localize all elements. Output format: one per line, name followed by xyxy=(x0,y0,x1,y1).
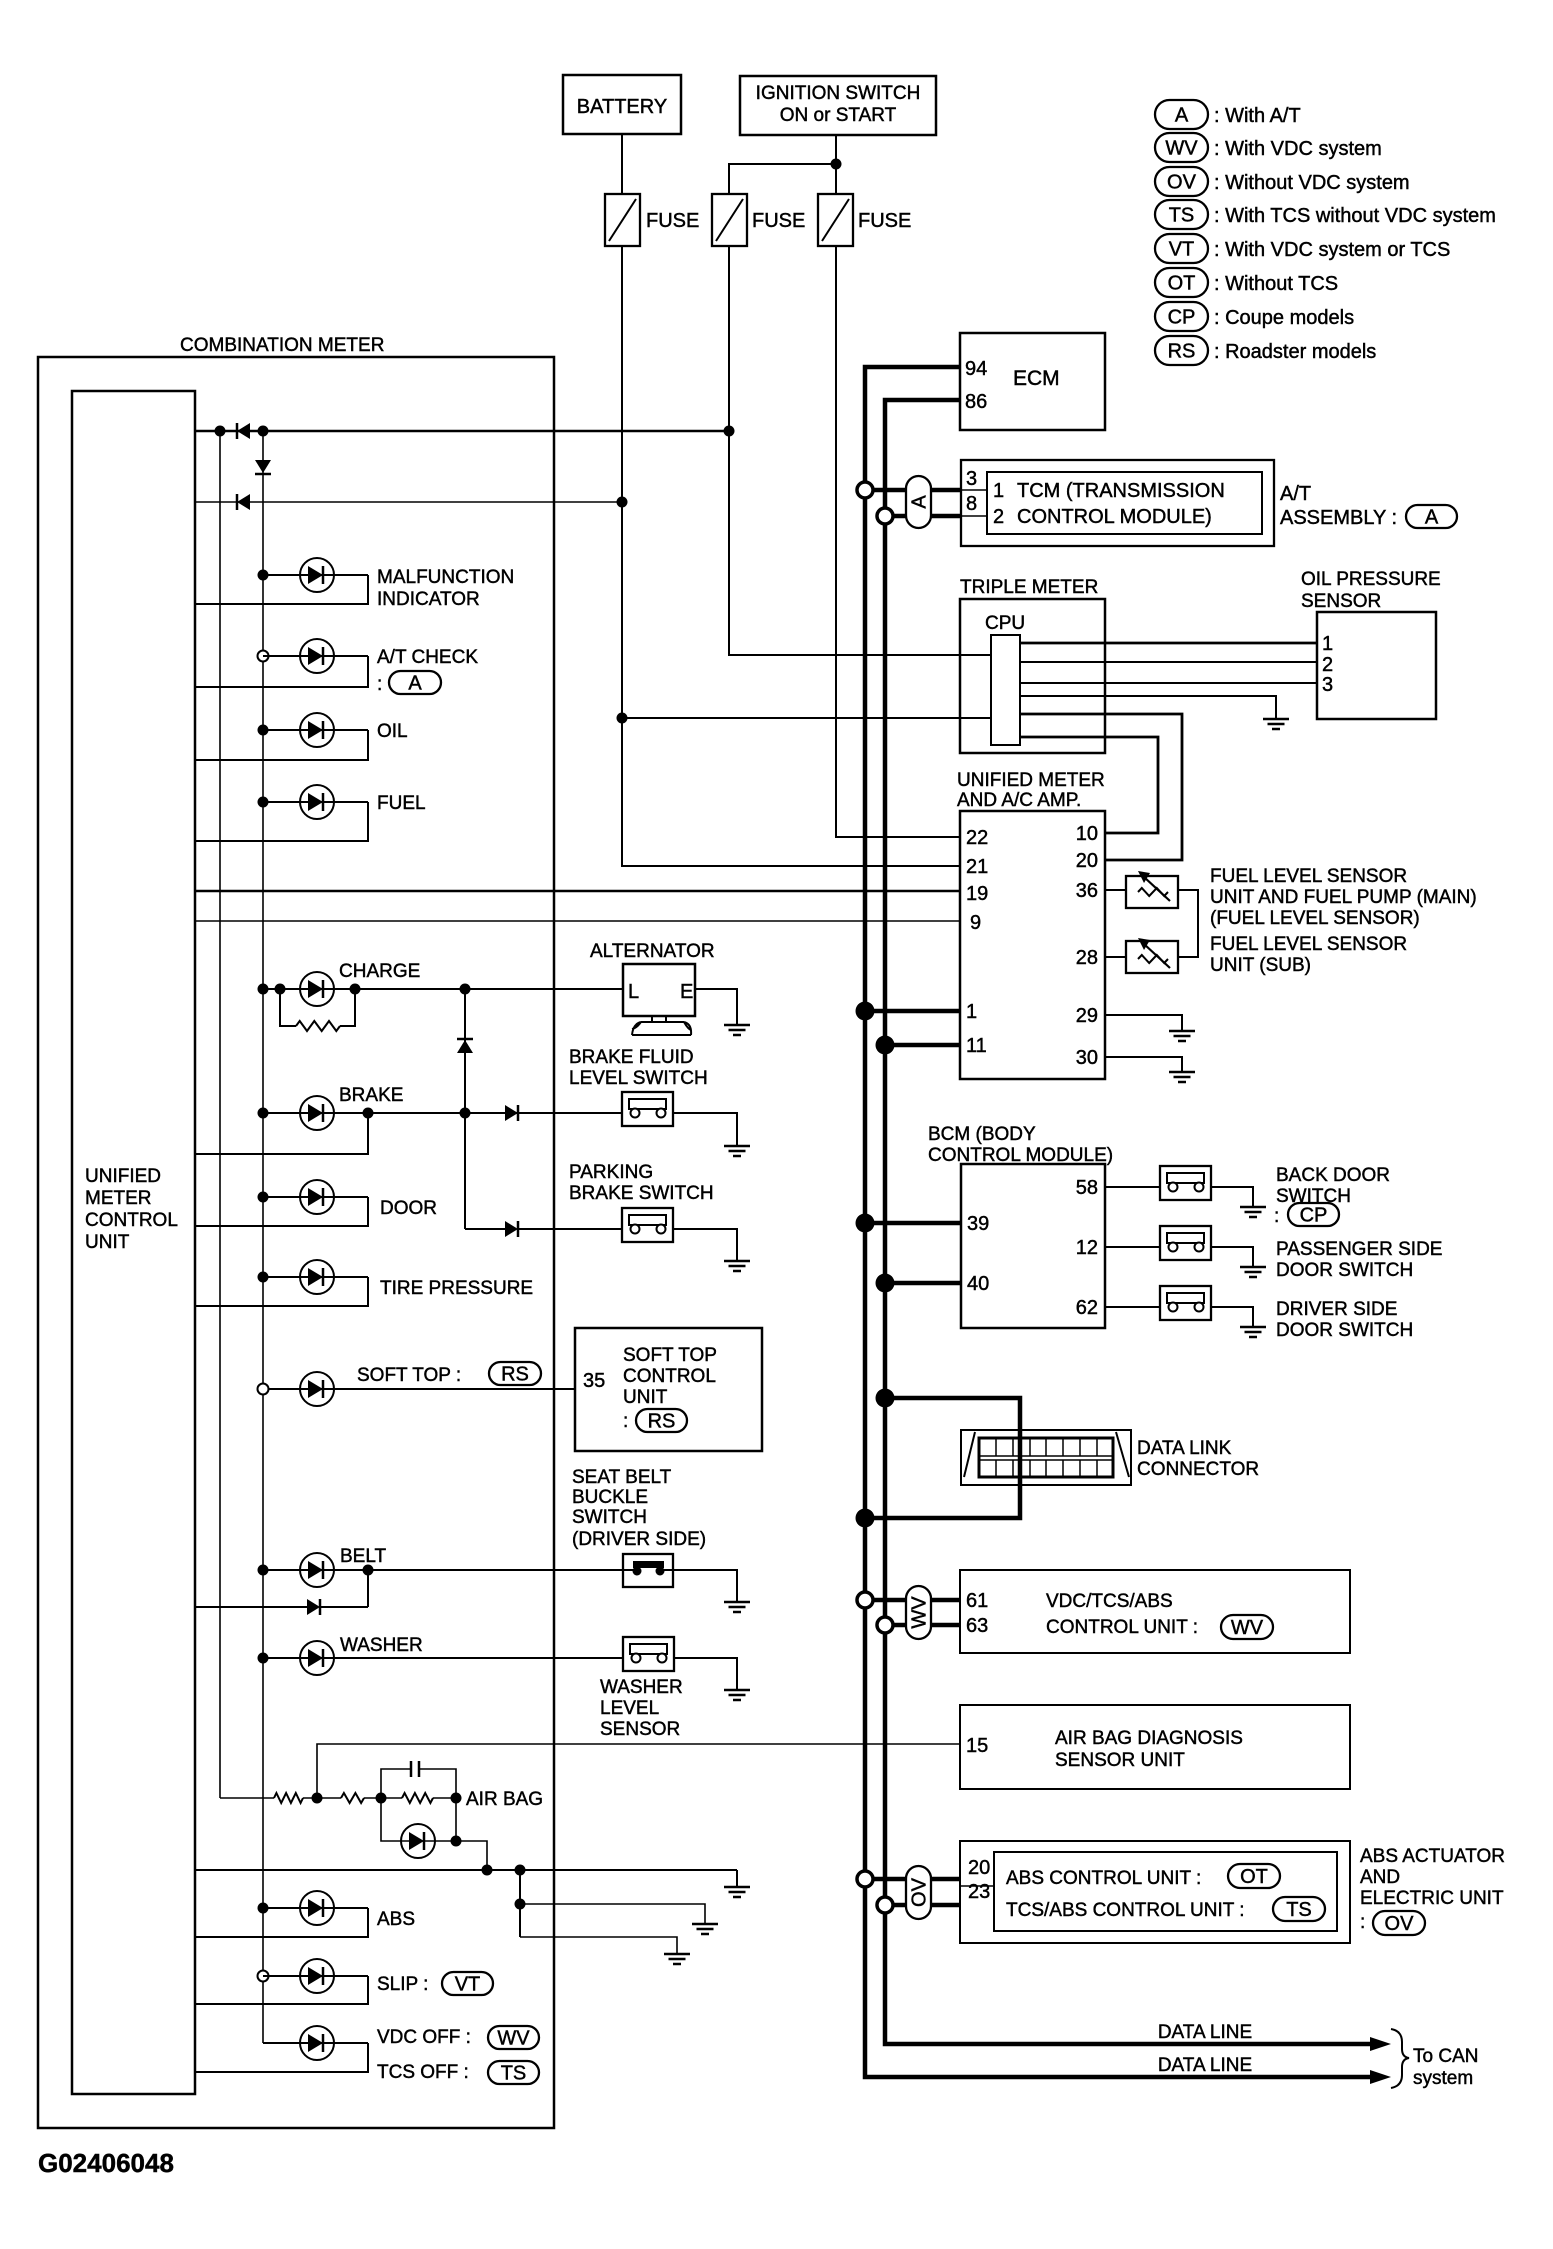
lamp FUEL xyxy=(195,785,426,841)
svg-text:BELT: BELT xyxy=(340,1546,387,1567)
soft top control unit box xyxy=(575,1328,762,1451)
svg-text:61: 61 xyxy=(966,1590,988,1612)
legend A xyxy=(1155,100,1301,129)
wire amp pin36 xyxy=(1105,889,1126,891)
stadium TS at tcs off xyxy=(488,2061,539,2085)
svg-text:39: 39 xyxy=(967,1213,989,1235)
stadium OV xyxy=(1373,1911,1425,1935)
svg-text:AND: AND xyxy=(1360,1867,1400,1888)
parking brake switch label xyxy=(569,1162,714,1204)
svg-text:ABS CONTROL UNIT :: ABS CONTROL UNIT : xyxy=(1006,1868,1201,1889)
washer level sensor label xyxy=(600,1677,683,1740)
node airbag C xyxy=(451,1793,462,1804)
lamp A/T CHECK xyxy=(195,639,478,695)
ABS actuator label xyxy=(1360,1846,1505,1933)
svg-text:VT: VT xyxy=(1169,239,1195,261)
wire amp pin30 ground xyxy=(1105,1057,1182,1072)
battery B1 xyxy=(563,75,681,134)
connector ABS circle 20 xyxy=(857,1871,873,1887)
resistor R4 airbag xyxy=(402,1793,456,1803)
A/T assembly label xyxy=(1280,483,1397,529)
svg-text:L: L xyxy=(628,981,639,1003)
svg-text:VDC OFF :: VDC OFF : xyxy=(377,2027,471,2048)
svg-text::: : xyxy=(1360,1912,1365,1933)
node bus pin11 xyxy=(876,1036,895,1055)
wire ground branch 3 xyxy=(520,1937,677,1954)
unified meter control unit label xyxy=(85,1166,178,1253)
svg-text:1: 1 xyxy=(966,1001,977,1023)
wire battery to fuse F1 xyxy=(621,134,623,194)
svg-text:BATTERY: BATTERY xyxy=(577,96,667,118)
seat belt buckle switch SW xyxy=(623,1554,673,1587)
oil pressure sensor box xyxy=(1317,612,1436,719)
svg-text:VDC/TCS/ABS: VDC/TCS/ABS xyxy=(1046,1591,1173,1612)
ground amp pin30 xyxy=(1169,1072,1195,1082)
diode D6 xyxy=(307,1599,320,1615)
wire ground bus xyxy=(195,1869,737,1871)
svg-text:WV: WV xyxy=(909,1596,931,1629)
svg-text:TCS/ABS CONTROL UNIT :: TCS/ABS CONTROL UNIT : xyxy=(1006,1900,1245,1921)
connector stadium OV rotated xyxy=(906,1866,931,1919)
svg-text:OT: OT xyxy=(1240,1866,1268,1888)
lamp BELT xyxy=(300,1546,387,1587)
ground parking brake switch xyxy=(724,1261,750,1271)
diode D4 up xyxy=(457,1039,473,1053)
wire CPU ground xyxy=(1020,696,1276,719)
air bag pin 15 xyxy=(966,1735,988,1757)
connector ABS circle 23 xyxy=(877,1897,893,1913)
svg-text:TCS OFF :: TCS OFF : xyxy=(377,2062,469,2083)
svg-text:ASSEMBLY :: ASSEMBLY : xyxy=(1280,507,1397,529)
svg-text:: Without VDC system: : Without VDC system xyxy=(1214,172,1410,194)
wire bus to ABS23 xyxy=(885,1903,960,1908)
fuel level sensor sub label xyxy=(1210,934,1407,976)
BCM label xyxy=(928,1124,1113,1166)
svg-text:WV: WV xyxy=(497,2028,530,2050)
svg-text:CHARGE: CHARGE xyxy=(339,961,420,982)
wire parking brake xyxy=(465,1228,622,1230)
wire driver door ground xyxy=(1211,1307,1253,1327)
lamp DOOR xyxy=(195,1180,437,1226)
connector TCM circle 1 xyxy=(857,482,873,498)
connector stadium WV rotated xyxy=(906,1586,931,1639)
node ground branch xyxy=(515,1899,526,1910)
alternator frame xyxy=(632,1016,691,1035)
BCM box xyxy=(961,1164,1105,1328)
stadium RS in soft top box xyxy=(636,1409,687,1433)
amp pin 22 xyxy=(966,827,988,849)
svg-text:FUEL: FUEL xyxy=(377,793,426,814)
washer level sensor SW xyxy=(623,1637,674,1671)
node airbag D xyxy=(451,1836,462,1847)
TCM inner box xyxy=(987,472,1262,534)
svg-text:FUEL LEVEL SENSOR: FUEL LEVEL SENSOR xyxy=(1210,934,1407,955)
wire BCM12 xyxy=(1105,1246,1160,1248)
oil sensor pin1 xyxy=(1322,633,1333,655)
svg-text:BRAKE: BRAKE xyxy=(339,1085,403,1106)
node airbag A xyxy=(312,1793,323,1804)
svg-text:58: 58 xyxy=(1076,1177,1098,1199)
back door switch label xyxy=(1274,1165,1390,1227)
svg-text:WV: WV xyxy=(1231,1617,1264,1639)
svg-text:2: 2 xyxy=(993,506,1004,528)
triple meter label xyxy=(960,577,1098,598)
lamp BRAKE wire xyxy=(258,1108,623,1119)
legend RS xyxy=(1155,336,1376,365)
brace to CAN xyxy=(1391,2029,1409,2088)
wire bus to amp pin11 xyxy=(885,1043,960,1048)
ground branch 3 xyxy=(664,1954,690,1964)
brake fluid level switch SW xyxy=(622,1092,673,1126)
air bag diagnosis label xyxy=(1055,1728,1243,1771)
svg-text:ALTERNATOR: ALTERNATOR xyxy=(590,941,715,962)
oil pressure sensor label xyxy=(1301,569,1441,612)
svg-text:AIR BAG: AIR BAG xyxy=(466,1789,543,1810)
wire BCM58 xyxy=(1105,1186,1160,1188)
lamp WASHER wire xyxy=(258,1653,624,1664)
ECM pin 86 xyxy=(965,391,987,413)
ABS outer box xyxy=(960,1841,1350,1943)
svg-text:: With TCS without VDC system: : With TCS without VDC system xyxy=(1214,205,1496,227)
lamp SOFT TOP xyxy=(300,1365,461,1406)
CPU connector xyxy=(991,635,1020,745)
wire vertical feed A xyxy=(219,431,221,1798)
svg-text:3: 3 xyxy=(966,468,977,490)
wire bus to BCM39 xyxy=(865,1221,961,1226)
stadium OT xyxy=(1228,1864,1280,1888)
wire battery feed xyxy=(622,246,960,866)
ignition switch S1 xyxy=(740,76,936,135)
svg-text:86: 86 xyxy=(965,391,987,413)
svg-text:FUEL LEVEL SENSOR: FUEL LEVEL SENSOR xyxy=(1210,866,1407,887)
wire fuse F3 feed xyxy=(836,246,960,837)
resistor R2 airbag xyxy=(274,1793,341,1803)
svg-text:SOFT TOP :: SOFT TOP : xyxy=(357,1365,461,1386)
lamp OIL xyxy=(195,713,408,760)
TCM pin 3 xyxy=(966,468,977,490)
node ground bus A xyxy=(482,1865,493,1876)
resistor R3 airbag xyxy=(341,1793,402,1803)
svg-text:SEAT BELT: SEAT BELT xyxy=(572,1467,672,1488)
svg-text:SENSOR: SENSOR xyxy=(600,1719,680,1740)
svg-text:SOFT TOP: SOFT TOP xyxy=(623,1345,717,1366)
svg-text:OV: OV xyxy=(909,1877,931,1907)
svg-text:IGNITION SWITCH: IGNITION SWITCH xyxy=(756,83,921,104)
lamp MALFUNCTION INDICATOR xyxy=(195,558,514,610)
unified meter amp box xyxy=(960,811,1105,1079)
node bus DLC top xyxy=(876,1389,895,1408)
wire vertical feed B xyxy=(262,431,264,2043)
node ignition branch xyxy=(831,159,842,170)
svg-text:(FUEL LEVEL SENSOR): (FUEL LEVEL SENSOR) xyxy=(1210,908,1420,929)
svg-text:10: 10 xyxy=(1076,823,1098,845)
node bus BCM40 xyxy=(876,1274,895,1293)
seat belt buckle switch label xyxy=(572,1467,706,1550)
node fuse2-wire1 junction xyxy=(724,426,735,437)
fuel level sensor main label xyxy=(1210,866,1477,929)
data line arrow lower xyxy=(1370,2070,1391,2084)
VDC pin 61 xyxy=(966,1590,988,1612)
TCM label xyxy=(1017,480,1225,528)
svg-text:DATA LINE: DATA LINE xyxy=(1158,2055,1252,2076)
to CAN system label xyxy=(1413,2046,1478,2089)
brake fluid level switch label xyxy=(569,1047,708,1089)
capacitor C1 xyxy=(381,1761,456,1798)
svg-text:9: 9 xyxy=(970,912,981,934)
svg-text:A: A xyxy=(1425,507,1439,529)
driver door switch SW xyxy=(1160,1286,1211,1320)
svg-text:TIRE PRESSURE: TIRE PRESSURE xyxy=(380,1278,533,1299)
svg-text:OIL: OIL xyxy=(377,721,408,742)
stadium VT at slip xyxy=(442,1972,493,1996)
connector VDC circle 61 xyxy=(857,1592,873,1608)
node wire1 right xyxy=(258,426,269,437)
svg-text:8: 8 xyxy=(966,493,977,515)
svg-text:INDICATOR: INDICATOR xyxy=(377,589,480,610)
ground branch 2 xyxy=(692,1924,718,1934)
stadium WV at vdc off xyxy=(488,2026,539,2050)
stadium CP xyxy=(1288,1203,1339,1227)
svg-text:COMBINATION METER: COMBINATION METER xyxy=(180,335,384,356)
svg-text:TS: TS xyxy=(501,2063,527,2085)
amp pin 30 xyxy=(1076,1047,1098,1069)
wire ignition branch to fuse F2 xyxy=(729,164,836,194)
wire airbag led branch xyxy=(381,1798,456,1841)
wire amp pin28 xyxy=(1105,956,1126,958)
legend OT xyxy=(1155,268,1338,297)
wire TCM pin1 xyxy=(865,488,961,493)
legend TS xyxy=(1155,200,1496,229)
svg-text:12: 12 xyxy=(1076,1237,1098,1259)
ground main xyxy=(724,1887,750,1897)
soft top pin 35 xyxy=(583,1370,605,1392)
svg-text:15: 15 xyxy=(966,1735,988,1757)
wire TCM pin2 xyxy=(885,514,961,519)
wire airbag to pin15 xyxy=(317,1744,960,1798)
node battery-CPU junction xyxy=(617,713,628,724)
ground amp pin29 xyxy=(1169,1031,1195,1041)
wire amp pin29 ground xyxy=(1105,1015,1182,1031)
VDC pin 63 xyxy=(966,1615,988,1637)
svg-text:MALFUNCTION: MALFUNCTION xyxy=(377,567,514,588)
stadium WV xyxy=(1221,1615,1273,1639)
triple meter box xyxy=(960,599,1105,753)
ABS inner box xyxy=(994,1852,1337,1931)
oil sensor pin2 xyxy=(1322,654,1333,676)
lamp SLIP xyxy=(195,1959,428,2004)
svg-text:35: 35 xyxy=(583,1370,605,1392)
svg-text:A: A xyxy=(1175,105,1189,127)
svg-text:A: A xyxy=(408,673,422,695)
svg-text::: : xyxy=(623,1411,628,1432)
amp pin 20 xyxy=(1076,850,1098,872)
svg-text:UNIT (SUB): UNIT (SUB) xyxy=(1210,955,1311,976)
BCM pin 58 xyxy=(1076,1177,1098,1199)
svg-text:22: 22 xyxy=(966,827,988,849)
fuel level sensor main R1 xyxy=(1126,871,1178,908)
svg-text:RS: RS xyxy=(648,1411,676,1433)
svg-text:BUCKLE: BUCKLE xyxy=(572,1487,648,1508)
connector VDC circle 63 xyxy=(877,1617,893,1633)
combination meter box label xyxy=(180,335,384,356)
wire CPU to oil sensor pin1 xyxy=(1020,642,1317,645)
node bus pin1 xyxy=(856,1002,875,1021)
BCM pin 62 xyxy=(1076,1297,1098,1319)
node airbag B xyxy=(376,1793,387,1804)
BCM pin 12 xyxy=(1076,1237,1098,1259)
TCS OFF label xyxy=(377,2062,469,2083)
air bag diagnosis box xyxy=(960,1705,1350,1789)
svg-text:SLIP :: SLIP : xyxy=(377,1974,428,1995)
ECM U1 xyxy=(960,333,1105,430)
data line label upper xyxy=(1158,2022,1252,2043)
wire CPU to amp pin10 xyxy=(1020,737,1158,833)
svg-text:ECM: ECM xyxy=(1013,367,1060,390)
parking brake switch SW xyxy=(622,1208,673,1242)
svg-text:: Roadster models: : Roadster models xyxy=(1214,341,1376,363)
wire bus to ABS20 xyxy=(865,1877,960,1882)
BCM pin 40 xyxy=(967,1273,989,1295)
legend CP xyxy=(1155,302,1354,331)
ground seat belt switch xyxy=(724,1602,750,1612)
data link connector J1 xyxy=(961,1430,1131,1485)
svg-text:20: 20 xyxy=(968,1857,990,1879)
svg-text:SENSOR UNIT: SENSOR UNIT xyxy=(1055,1750,1185,1771)
svg-text:ABS: ABS xyxy=(377,1909,415,1930)
combination meter box xyxy=(38,357,554,2128)
svg-text:RS: RS xyxy=(501,1364,529,1386)
svg-text:94: 94 xyxy=(965,358,987,380)
svg-text:29: 29 xyxy=(1076,1005,1098,1027)
wire passenger door ground xyxy=(1211,1247,1253,1267)
data line label lower xyxy=(1158,2055,1252,2076)
node wire1 left xyxy=(215,426,226,437)
TCM pin separator 1 xyxy=(961,489,987,491)
svg-text:METER: METER xyxy=(85,1188,152,1209)
svg-text:CONNECTOR: CONNECTOR xyxy=(1137,1459,1259,1480)
wire BCM62 xyxy=(1105,1306,1160,1308)
amp pin 19 xyxy=(966,883,988,905)
svg-text:WV: WV xyxy=(1165,138,1198,160)
svg-text:20: 20 xyxy=(1076,850,1098,872)
connector TCM circle 2 xyxy=(877,508,893,524)
BCM pin 39 xyxy=(967,1213,989,1235)
lamp ABS xyxy=(195,1891,415,1937)
svg-text:TCM (TRANSMISSION: TCM (TRANSMISSION xyxy=(1017,480,1225,502)
amp pin 11 xyxy=(966,1035,987,1057)
wire ground branch 2 xyxy=(520,1870,705,1937)
passenger door switch SW xyxy=(1160,1226,1211,1260)
svg-text:OT: OT xyxy=(1168,273,1196,295)
connector stadium A rotated xyxy=(906,476,931,528)
svg-text:: With VDC system or TCS: : With VDC system or TCS xyxy=(1214,239,1450,261)
svg-text:CONTROL MODULE): CONTROL MODULE) xyxy=(1017,506,1212,528)
amp pin 9 xyxy=(970,912,981,934)
TCM outer box xyxy=(961,460,1274,546)
fuse F3 xyxy=(818,194,911,246)
svg-text:DATA LINE: DATA LINE xyxy=(1158,2022,1252,2043)
svg-text:CPU: CPU xyxy=(985,613,1025,634)
lamp VDC OFF wire xyxy=(263,2042,368,2044)
wire brake fluid ground xyxy=(673,1113,737,1146)
svg-text:DATA LINK: DATA LINK xyxy=(1137,1438,1232,1459)
svg-text:LEVEL SWITCH: LEVEL SWITCH xyxy=(569,1068,708,1089)
wire ECM94 bus xyxy=(865,367,1372,2077)
wire ignition down xyxy=(835,135,837,194)
svg-text:UNIT: UNIT xyxy=(85,1232,130,1253)
air bag label xyxy=(466,1789,543,1810)
svg-text:UNIFIED METER: UNIFIED METER xyxy=(957,770,1105,791)
svg-text:E: E xyxy=(680,981,693,1003)
svg-text:ELECTRIC UNIT: ELECTRIC UNIT xyxy=(1360,1888,1504,1909)
figure id xyxy=(38,2148,174,2178)
wire airbag feed xyxy=(220,1797,274,1799)
svg-text:OIL PRESSURE: OIL PRESSURE xyxy=(1301,569,1441,590)
svg-text:A/T: A/T xyxy=(1280,483,1311,505)
wire meter to amp pin19 xyxy=(195,890,960,893)
VDC label xyxy=(1046,1591,1198,1638)
unified meter amp label xyxy=(957,770,1105,811)
svg-text:DOOR SWITCH: DOOR SWITCH xyxy=(1276,1320,1413,1341)
fuse F1 xyxy=(605,194,699,246)
svg-text:system: system xyxy=(1413,2068,1473,2089)
ground back door switch xyxy=(1240,1207,1266,1217)
node bus DLC bottom xyxy=(856,1509,875,1528)
svg-text:AND A/C AMP.: AND A/C AMP. xyxy=(957,790,1081,811)
svg-text:2: 2 xyxy=(1322,654,1333,676)
svg-text:ON or START: ON or START xyxy=(780,105,897,126)
ground brake fluid switch xyxy=(724,1146,750,1156)
svg-text:WASHER: WASHER xyxy=(340,1635,423,1656)
svg-text:11: 11 xyxy=(966,1035,987,1057)
wire back door ground xyxy=(1211,1187,1253,1207)
svg-text:WASHER: WASHER xyxy=(600,1677,683,1698)
svg-text:FUSE: FUSE xyxy=(858,210,911,232)
lamp BRAKE xyxy=(300,1085,403,1130)
svg-text:63: 63 xyxy=(966,1615,988,1637)
svg-text:21: 21 xyxy=(966,856,988,878)
diode D2 down xyxy=(255,460,271,474)
svg-text:23: 23 xyxy=(968,1881,990,1903)
TCM pin 8 xyxy=(966,493,977,515)
svg-text:TS: TS xyxy=(1169,205,1195,227)
svg-text:A/T CHECK: A/T CHECK xyxy=(377,647,478,668)
stadium RS at soft top xyxy=(489,1362,541,1386)
wire airbag to ground bus xyxy=(456,1841,487,1870)
svg-text:40: 40 xyxy=(967,1273,989,1295)
lamp SOFT TOP wire xyxy=(258,1384,576,1395)
wire bus to amp pin1 xyxy=(865,1009,960,1014)
lamp WASHER xyxy=(300,1635,423,1675)
fuse F2 xyxy=(712,194,805,246)
ground main stub xyxy=(736,1870,738,1887)
wire fuel main to sub xyxy=(1178,890,1198,957)
svg-text:VT: VT xyxy=(455,1974,481,1996)
node ground bus B xyxy=(515,1865,526,1876)
svg-text:ABS ACTUATOR: ABS ACTUATOR xyxy=(1360,1846,1505,1867)
wire parking brake ground xyxy=(673,1229,737,1261)
svg-text:G02406048: G02406048 xyxy=(38,2148,174,2178)
CPU label xyxy=(985,613,1025,634)
wire CPU to amp pin20 xyxy=(1020,714,1182,860)
svg-text:DOOR: DOOR xyxy=(380,1198,437,1219)
svg-text:OV: OV xyxy=(1167,172,1197,194)
svg-text:CONTROL: CONTROL xyxy=(85,1210,178,1231)
back door switch SW xyxy=(1160,1166,1211,1200)
svg-text:CONTROL UNIT :: CONTROL UNIT : xyxy=(1046,1617,1198,1638)
diode D7 xyxy=(505,1221,518,1237)
svg-text::: : xyxy=(377,674,382,695)
